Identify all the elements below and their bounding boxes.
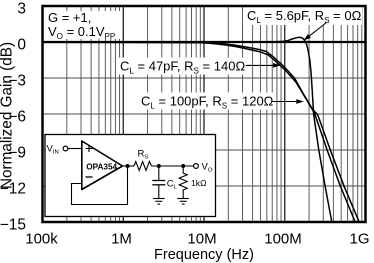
svg-text:−12: −12 bbox=[0, 181, 26, 198]
svg-text:−3: −3 bbox=[8, 73, 26, 90]
node junction dot at C_L bbox=[157, 164, 161, 168]
curve C_L = 47pF, R_S = 140ohm bbox=[44, 42, 356, 222]
node VIN input wire bbox=[68, 148, 82, 150]
op-amp minus input sign bbox=[86, 176, 93, 178]
resistor 1k zigzag vertical bbox=[179, 166, 187, 198]
inset circuit box bbox=[45, 135, 216, 217]
svg-text:G = +1,: G = +1, bbox=[48, 10, 91, 25]
curve C_L = 100pF, R_S = 120ohm bbox=[44, 42, 360, 222]
plot frame bbox=[43, 6, 366, 222]
svg-text:100M: 100M bbox=[264, 231, 302, 248]
curve C_L = 5.6pF, R_S = 0ohm bbox=[44, 37, 332, 222]
op-amp plus input sign bbox=[86, 145, 93, 152]
arrow to 47pF curve bbox=[246, 64, 274, 66]
arrow to 100pF curve bbox=[273, 101, 297, 103]
terminal circle V_O bbox=[194, 164, 199, 169]
svg-text:OPA354: OPA354 bbox=[86, 163, 117, 172]
node junction dot at feedback bbox=[126, 164, 130, 168]
label box C_L=5.6pF R_S=0 bbox=[244, 7, 362, 25]
op-amp U1 OPA354 triangle bbox=[82, 141, 123, 190]
wire op-amp output bbox=[122, 165, 135, 167]
svg-text:−9: −9 bbox=[8, 145, 26, 162]
svg-text:−15: −15 bbox=[0, 217, 26, 234]
0 dB axis line bbox=[43, 41, 366, 43]
minor log grid lines bbox=[67, 6, 362, 222]
svg-text:1G: 1G bbox=[349, 231, 369, 248]
horizontal dB grid lines bbox=[43, 78, 366, 186]
label box C_L=47pF R_S=140 bbox=[117, 58, 245, 75]
svg-text:CL = 5.6pF, RS = 0Ω: CL = 5.6pF, RS = 0Ω bbox=[247, 8, 362, 25]
svg-text:−6: −6 bbox=[8, 109, 26, 126]
ground below 1k resistor bbox=[177, 199, 189, 205]
svg-text:1M: 1M bbox=[111, 231, 132, 248]
ground below C_L bbox=[153, 199, 165, 205]
arrow to 5.6pF curve bbox=[309, 23, 326, 36]
svg-text:1kΩ: 1kΩ bbox=[191, 178, 207, 188]
wire feedback left segment bbox=[72, 166, 128, 205]
svg-text:0: 0 bbox=[17, 37, 26, 54]
label box G=+1 bbox=[44, 11, 123, 39]
wire R_S to V_O bbox=[152, 165, 194, 167]
capacitor C_L wires and plates bbox=[158, 166, 160, 180]
terminal circle V_IN bbox=[63, 146, 68, 151]
node junction dot at 1k bbox=[181, 164, 185, 168]
resistor R_S zigzag bbox=[134, 162, 152, 171]
svg-text:CL = 100pF, RS = 120Ω: CL = 100pF, RS = 120Ω bbox=[141, 94, 274, 111]
svg-text:CL = 47pF, RS = 140Ω: CL = 47pF, RS = 140Ω bbox=[120, 59, 245, 76]
svg-text:10M: 10M bbox=[187, 231, 216, 248]
svg-text:3: 3 bbox=[17, 1, 26, 18]
label box C_L=100pF R_S=120 bbox=[139, 93, 276, 110]
svg-text:Frequency (Hz): Frequency (Hz) bbox=[154, 247, 254, 263]
decade grid lines bbox=[123, 6, 285, 222]
svg-text:100k: 100k bbox=[25, 231, 58, 248]
